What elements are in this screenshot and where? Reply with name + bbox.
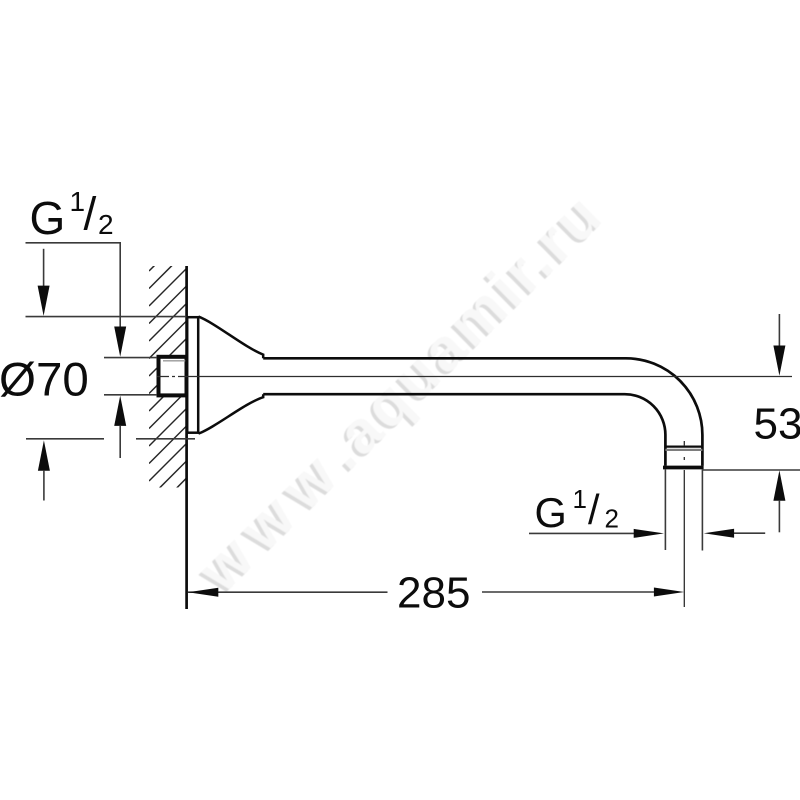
extension line spout right edge <box>701 469 703 550</box>
dimension: 53 upper shaft <box>778 314 780 347</box>
extension line spout end <box>702 469 800 471</box>
extension line flange bottom (right segment) <box>136 438 195 440</box>
extension line pipe bottom <box>104 394 157 396</box>
svg-text:53: 53 <box>754 400 800 449</box>
extension line flange top <box>26 316 187 318</box>
dimension: 285 line left segment with left arrow at wall <box>188 591 388 593</box>
arrow left at spout right edge <box>704 529 734 538</box>
arrow down at pipe top <box>114 327 126 357</box>
watermark www.aquamir.ru <box>182 179 616 607</box>
spout cap line 2 <box>665 449 702 451</box>
dimension: top-left G 1/2 label <box>30 186 114 244</box>
shaft below spout-end arrow <box>778 501 780 533</box>
extension line pipe top <box>104 357 157 359</box>
svg-text:1: 1 <box>573 484 587 514</box>
svg-text:/: / <box>84 188 97 240</box>
arrow left at wall <box>188 588 218 597</box>
shaft below flange-bottom arrow <box>43 471 45 501</box>
svg-text:Ø70: Ø70 <box>0 354 89 407</box>
spout vertical centerline <box>683 441 685 607</box>
right segment of G 1/2 line <box>730 532 765 534</box>
spout end bar <box>663 466 704 470</box>
wall line <box>185 266 188 609</box>
arrow right at spout centerline <box>654 588 684 597</box>
spout cap line 1 <box>665 445 702 447</box>
shower arm tube bottom outline with inner elbow arc <box>263 394 665 466</box>
arrow down at flange top <box>38 286 50 316</box>
trumpet escutcheon bottom curve <box>199 394 264 433</box>
svg-text:G: G <box>535 489 567 536</box>
svg-text:G: G <box>30 192 66 244</box>
G 1/2 threaded pipe behind wall <box>159 357 187 396</box>
svg-text:www.aquamir.ru: www.aquamir.ru <box>185 179 616 604</box>
flange plate <box>187 317 198 433</box>
dimension: bottom G 1/2 label <box>535 484 619 536</box>
extension line spout left edge <box>664 469 666 550</box>
dimension: top-left G 1/2 leader line with drop <box>26 243 121 330</box>
trumpet escutcheon top curve <box>199 317 264 359</box>
arrow down at arm centerline <box>773 346 785 376</box>
arrow up at flange bottom <box>38 440 50 470</box>
svg-text:2: 2 <box>98 209 114 240</box>
horizontal centerline <box>157 376 792 378</box>
svg-text:/: / <box>588 486 600 533</box>
wall hatching <box>149 227 193 534</box>
svg-text:2: 2 <box>605 504 619 534</box>
bottom G 1/2 leader line <box>529 532 638 534</box>
shower arm tube top outline with outer elbow arc <box>263 358 702 465</box>
svg-text:285: 285 <box>397 569 470 618</box>
shaft above flange-top arrow <box>43 249 45 288</box>
arrow right at spout left edge <box>634 529 664 538</box>
dimension: 285 line right segment <box>482 591 654 593</box>
arrow up at spout end <box>773 470 785 500</box>
extension line flange bottom (left segment) <box>26 438 104 440</box>
shaft below pipe-bottom arrow <box>119 426 121 458</box>
arrow up at pipe bottom <box>114 396 126 426</box>
